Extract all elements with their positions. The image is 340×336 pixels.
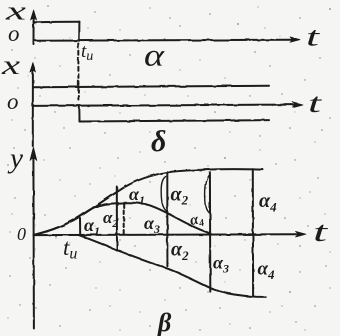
- svg-text:o: o: [8, 21, 20, 46]
- t-axis plot b: [33, 105, 293, 106]
- vertical line 3: [209, 172, 211, 291]
- step-down edge at t_u: [78, 106, 80, 121]
- curve 3: resulting response y(t), rises then returns to axis: [34, 203, 211, 235]
- curve 1: step response rising to plateau: [34, 169, 263, 235]
- pulse top edge: [34, 21, 80, 24]
- svg-text:y: y: [7, 144, 24, 175]
- y-axis arrowhead plot a: [31, 10, 37, 20]
- svg-text:α: α: [144, 37, 165, 73]
- dashed line t_u plot b: [77, 60, 79, 100]
- lower level line (-x step): [80, 120, 270, 121]
- svg-text:t: t: [313, 217, 329, 248]
- pulse falling edge: [78, 22, 80, 41]
- brace for a2 span: [161, 177, 166, 211]
- t-axis arrowhead plot a: [290, 37, 300, 42]
- brace for a4 span: [205, 175, 210, 214]
- dashed vertical line: [123, 204, 125, 234]
- curve 2: negative step response falling to lower plateau: [79, 235, 266, 297]
- svg-text:o: o: [7, 89, 19, 114]
- svg-text:δ: δ: [151, 125, 166, 158]
- dashed t_u marker plot a: [77, 44, 79, 59]
- y-axis of plot b: [32, 67, 34, 146]
- vertical line 4: [252, 169, 254, 295]
- t-axis arrowhead plot v: [296, 231, 307, 237]
- y-axis of plot v: [32, 152, 35, 329]
- svg-text:β: β: [157, 308, 172, 336]
- y-axis arrowhead plot b: [30, 63, 36, 73]
- t-axis arrowhead plot b: [293, 102, 303, 107]
- y-axis of plot a: [33, 14, 35, 44]
- vertical line 1: [116, 187, 118, 251]
- tick at t_u on axis: [79, 218, 81, 235]
- y-axis arrowhead plot v: [30, 147, 37, 161]
- svg-text:0: 0: [17, 224, 26, 244]
- t-axis plot a: [34, 40, 292, 41]
- vertical line 2: [166, 172, 168, 266]
- svg-text:x: x: [0, 50, 20, 80]
- upper level line (+x step): [33, 86, 269, 87]
- t-axis plot v: [34, 233, 297, 236]
